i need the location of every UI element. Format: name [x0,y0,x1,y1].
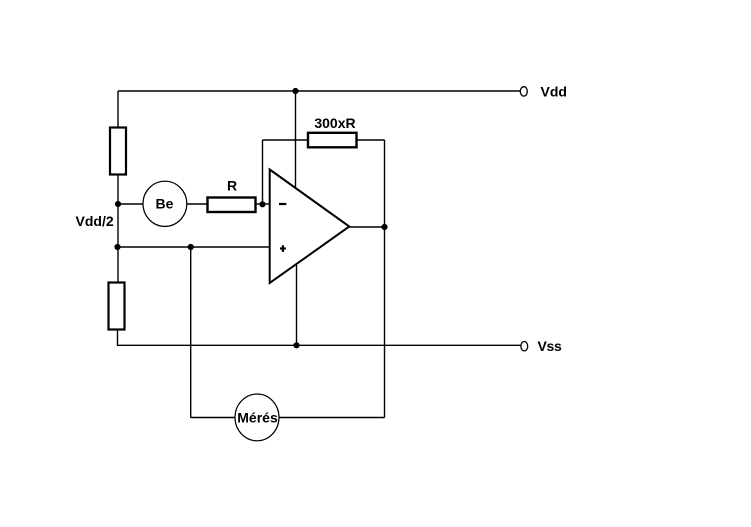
wire between R1 and lower sections [117,174,119,283]
junction dot inverting input node [259,201,265,207]
wire Be to R [187,203,208,205]
resistor R2 lower divider [109,283,125,330]
junction dot node Vdd/2 [115,201,121,207]
junction dot top rail [292,88,298,94]
wire feedback horizontal to 300xR [263,139,309,141]
junction dot measurement tap [188,244,194,250]
meter Meres circle [235,394,279,441]
svg-text:Vdd: Vdd [541,84,567,100]
wire op-amp output [349,226,385,228]
junction dot Vss rail [293,342,299,348]
svg-text:Vdd/2: Vdd/2 [76,213,114,229]
resistor R series input [208,198,256,213]
wire op-amp bottom supply [296,265,298,345]
wire below R2 to Vss rail [117,330,120,346]
terminal Vss [521,342,528,351]
wire non-inverting input rail [118,246,270,248]
op-amp non-inverting pin plus sign [280,245,286,252]
wire op-amp top supply [295,91,297,189]
resistor R1 upper divider [110,128,126,175]
junction dot output node [381,224,387,230]
op-amp inverting pin minus sign [279,203,286,205]
wire Meres right to output vertical [279,417,385,419]
wire feedback vertical from inverting node [262,140,264,204]
wire output vertical upper [384,140,386,227]
op-amp U1 triangle [270,170,350,284]
source Be circle [143,181,187,226]
wire output vertical lower to measurement branch [384,227,386,418]
svg-text:300xR: 300xR [314,115,355,131]
wire top Vdd rail [118,90,521,92]
svg-text:Mérés: Mérés [237,409,278,425]
wire R to op-amp inverting input [256,203,270,205]
terminal Vdd [520,87,527,96]
wire measurement branch vertical [190,247,192,418]
wire to Meres left [191,417,235,419]
wire node Vdd/2 to Be [118,203,144,205]
svg-text:R: R [227,178,237,194]
wire left vertical to R1 [117,91,119,128]
wire 300xR to output vertical [357,139,385,141]
wire Vss rail [118,344,522,346]
junction dot non-inverting rail left [114,244,120,250]
svg-text:Be: Be [156,196,174,212]
resistor 300xR feedback [308,133,357,148]
svg-text:Vss: Vss [538,338,563,354]
